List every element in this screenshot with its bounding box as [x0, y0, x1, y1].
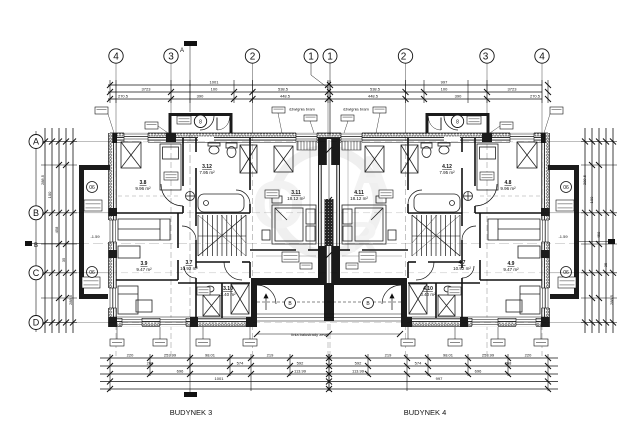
right half building (mirror) [326, 49, 617, 392]
marker circle 8 vestibule [194, 115, 206, 127]
svg-text:3723: 3723 [508, 87, 518, 92]
left dimension numbers (rotated) [40, 174, 73, 305]
svg-text:BUDYNEK 4: BUDYNEK 4 [404, 408, 447, 417]
section B line across [79, 243, 579, 245]
svg-text:98.01: 98.01 [443, 353, 454, 358]
svg-text:1: 1 [308, 52, 314, 63]
svg-text:538.5: 538.5 [278, 87, 289, 92]
svg-text:113.99: 113.99 [294, 369, 307, 374]
top dimension lines [107, 80, 331, 103]
bed bottom room [118, 286, 138, 314]
toilet room 3.12 [226, 143, 237, 158]
svg-text:dźwignia bram: dźwignia bram [289, 107, 315, 112]
svg-text:9.96 m²: 9.96 m² [500, 186, 516, 191]
svg-text:574: 574 [237, 361, 244, 366]
washbasin room 3.10 [206, 286, 214, 292]
vertical axis stem lines [116, 63, 328, 135]
svg-text:592: 592 [297, 361, 304, 366]
door swing arcs [161, 116, 276, 304]
axis circles top row [109, 49, 260, 63]
section B marker left [25, 241, 79, 249]
svg-text:253.99: 253.99 [482, 353, 495, 358]
svg-text:4: 4 [539, 52, 545, 63]
shower room 3.10 [203, 295, 220, 316]
window top wall room 3.8 [124, 133, 148, 143]
watermark logo [252, 146, 390, 262]
svg-text:8: 8 [456, 120, 459, 126]
svg-text:18.12 m²: 18.12 m² [287, 196, 305, 201]
svg-text:270.5: 270.5 [530, 94, 541, 99]
svg-text:390: 390 [455, 94, 462, 99]
interior dim line 3.11 [256, 142, 316, 256]
window top wall room 3.11 [296, 133, 317, 143]
porch steps [257, 302, 329, 321]
svg-text:288.5: 288.5 [40, 174, 45, 185]
stairs [198, 215, 246, 256]
section A marker top [180, 41, 197, 318]
bottom dimension lines [100, 354, 332, 392]
svg-text:696: 696 [475, 369, 482, 374]
svg-text:390: 390 [197, 94, 204, 99]
svg-text:288.5: 288.5 [68, 294, 73, 305]
svg-text:458: 458 [54, 226, 59, 233]
svg-text:100: 100 [441, 87, 448, 92]
svg-text:100: 100 [589, 196, 594, 203]
svg-text:268: 268 [147, 361, 154, 366]
party wall centre gap [326, 139, 332, 283]
right dimension numbers (rotated) [582, 174, 614, 305]
window bottom wall 2 [122, 318, 142, 327]
svg-text:B: B [34, 243, 38, 249]
nightstand room 3.11 [262, 196, 282, 240]
exterior wall top [109, 133, 330, 143]
svg-text:696: 696 [177, 369, 184, 374]
section B marker right [579, 239, 615, 244]
dresser room 3.9 [118, 246, 140, 258]
svg-text:35: 35 [603, 262, 608, 267]
axis number labels [113, 52, 545, 63]
svg-text:2: 2 [401, 52, 407, 63]
svg-text:3: 3 [483, 52, 489, 63]
wardrobe room 3.8 [121, 142, 141, 168]
svg-text:10.92 m²: 10.92 m² [453, 266, 471, 271]
section A marker bottom [184, 326, 197, 397]
svg-text:219: 219 [267, 353, 274, 358]
recessed porch wall [251, 278, 329, 285]
svg-text:10.92 m²: 10.92 m² [180, 266, 198, 271]
svg-text:458: 458 [596, 231, 601, 238]
svg-text:997: 997 [436, 376, 443, 381]
exterior wall left [109, 133, 118, 327]
porch arrow [264, 294, 268, 310]
letter axis circles [35, 131, 37, 332]
svg-text:7.95 m²: 7.95 m² [439, 170, 455, 175]
svg-text:113.99: 113.99 [352, 369, 365, 374]
svg-text:100: 100 [211, 87, 218, 92]
svg-text:D: D [33, 318, 40, 328]
party wall centre pier [325, 199, 334, 246]
svg-text:06: 06 [89, 270, 95, 276]
svg-text:-1.59: -1.59 [90, 234, 100, 239]
bottom dimension numbers [127, 353, 532, 382]
svg-text:06: 06 [89, 185, 95, 191]
desk bottom room [136, 300, 152, 312]
clearance dashes room 3.8 [118, 195, 181, 197]
bed room 3.8 [160, 144, 181, 190]
washbasin room 3.12 [208, 143, 220, 154]
svg-text:288.5: 288.5 [582, 174, 587, 185]
svg-text:dźwignia bram: dźwignia bram [343, 107, 369, 112]
svg-text:253.99: 253.99 [164, 353, 177, 358]
svg-text:C: C [33, 268, 40, 278]
svg-text:06: 06 [563, 270, 569, 276]
svg-text:270.5: 270.5 [118, 94, 129, 99]
vestibule walls [169, 113, 233, 133]
svg-text:7.95 m²: 7.95 m² [199, 170, 215, 175]
wardrobe bottom corridor [231, 284, 249, 314]
svg-text:8: 8 [199, 120, 202, 126]
bath tub room 3.12 [198, 194, 244, 212]
leader lines to boxes [108, 113, 314, 133]
svg-text:1001: 1001 [215, 376, 225, 381]
svg-text:1: 1 [327, 52, 333, 63]
washbasin corridor [186, 192, 195, 201]
svg-text:9.96 m²: 9.96 m² [135, 186, 151, 191]
svg-text:1001: 1001 [210, 80, 220, 85]
marker circles O6 terrace [87, 182, 98, 193]
svg-text:2: 2 [250, 52, 256, 63]
svg-text:220: 220 [525, 353, 532, 358]
bed room 3.9 [118, 219, 170, 240]
svg-text:3723: 3723 [142, 87, 152, 92]
svg-text:997: 997 [441, 80, 448, 85]
svg-text:B: B [33, 208, 39, 218]
top dim line left stubs [108, 85, 116, 99]
window left wall room 3.9 [108, 220, 118, 242]
radiator below window [297, 141, 316, 150]
marker texts [89, 120, 569, 308]
svg-text:A: A [180, 48, 184, 54]
svg-text:220: 220 [127, 353, 134, 358]
interior partition walls [116, 138, 318, 318]
svg-text:06: 06 [563, 185, 569, 191]
svg-text:3: 3 [168, 52, 174, 63]
svg-text:BUDYNEK 3: BUDYNEK 3 [170, 408, 213, 417]
porch dimension line [254, 331, 403, 337]
svg-text:268: 268 [505, 361, 512, 366]
small reference boxes [82, 107, 317, 295]
porch side wall [251, 285, 257, 321]
svg-text:linia balustrady zewn: linia balustrady zewn [291, 332, 328, 337]
svg-text:574: 574 [415, 361, 422, 366]
svg-text:448.5: 448.5 [368, 94, 379, 99]
svg-text:592: 592 [355, 361, 362, 366]
svg-text:3.40 m²: 3.40 m² [220, 292, 236, 297]
axis lines dashed through plan [116, 135, 328, 356]
wardrobe X room 3.11 right [274, 146, 293, 172]
svg-text:288.5: 288.5 [609, 294, 614, 305]
svg-text:4: 4 [113, 52, 119, 63]
wardrobe X room 3.11 left [240, 145, 257, 173]
bottom WZ label boxes [110, 327, 257, 346]
svg-text:9.47 m²: 9.47 m² [136, 267, 152, 272]
vestibule door leaf [216, 118, 218, 131]
svg-text:100: 100 [47, 191, 52, 198]
svg-text:9.47 m²: 9.47 m² [503, 267, 519, 272]
horizontal letter axis lines [43, 142, 614, 323]
exterior wall bottom [109, 317, 258, 327]
terrace walls left [79, 165, 110, 299]
svg-text:448.5: 448.5 [280, 94, 291, 99]
svg-text:A: A [33, 137, 39, 147]
svg-text:35: 35 [61, 257, 66, 262]
svg-text:-1.59: -1.59 [558, 234, 568, 239]
bed room 3.11 [272, 205, 316, 244]
left dimension lines [41, 128, 77, 333]
top dimension numbers [118, 80, 541, 99]
svg-text:98.01: 98.01 [205, 353, 216, 358]
axis 1 circles and leaders [304, 49, 337, 135]
svg-text:538.5: 538.5 [370, 87, 381, 92]
svg-text:3.40 m²: 3.40 m² [420, 292, 436, 297]
window left wall bottom room [108, 288, 118, 308]
party wall [318, 138, 329, 285]
passage gap top wall [198, 137, 214, 142]
svg-text:219: 219 [385, 353, 392, 358]
svg-text:18.12 m²: 18.12 m² [350, 196, 368, 201]
room labels [135, 164, 519, 297]
level text terrace [90, 107, 568, 338]
porch centre divider [324, 285, 329, 321]
marker circle porch [285, 298, 296, 309]
window bottom wall [160, 318, 186, 327]
